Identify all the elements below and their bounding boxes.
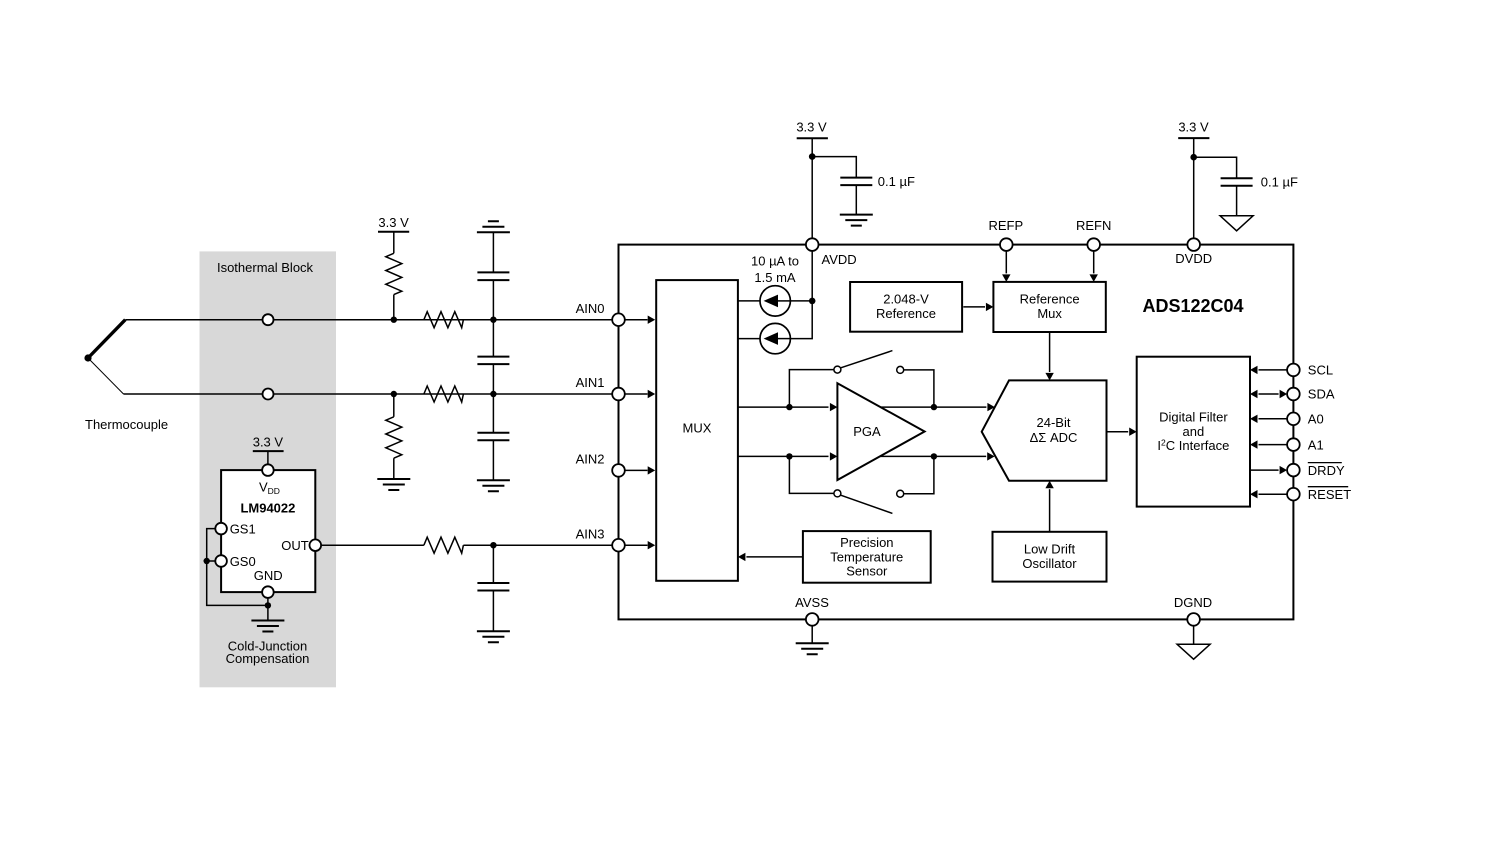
wire GS0 stub xyxy=(207,560,216,562)
wire A0 to digital filter xyxy=(1259,418,1288,420)
wire reference mux to ADC xyxy=(1049,332,1051,372)
differential capacitor between AIN0 and AIN1 xyxy=(477,320,509,394)
pin AIN3 xyxy=(612,539,625,552)
pin REFP xyxy=(1000,238,1013,251)
svg-text:A0: A0 xyxy=(1308,412,1324,427)
svg-text:10 µA to: 10 µA to xyxy=(751,254,799,269)
series resistor on AIN0 xyxy=(424,312,464,328)
wire resistor to AIN3 node xyxy=(463,544,612,546)
wire resistor to AIN0 xyxy=(393,295,395,320)
pin SCL xyxy=(1287,364,1300,377)
wire PGA to ADC negative xyxy=(880,455,986,457)
wire reference to reference mux xyxy=(963,306,985,308)
svg-text:AIN0: AIN0 xyxy=(576,301,605,316)
wire AIN1 to MUX xyxy=(625,393,648,395)
svg-text:Sensor: Sensor xyxy=(846,563,888,578)
svg-text:0.1 µF: 0.1 µF xyxy=(878,174,915,189)
pin GS0 xyxy=(215,555,227,567)
LM94022 U1 xyxy=(221,470,315,592)
wire REFN to reference mux xyxy=(1093,251,1095,274)
svg-text:Mux: Mux xyxy=(1037,306,1062,321)
junction dot PGA input positive xyxy=(786,404,792,410)
pin GS1 xyxy=(215,523,227,535)
pin A1 xyxy=(1287,438,1300,451)
junction dot PGA output negative xyxy=(931,453,937,459)
ground C1 xyxy=(840,215,873,226)
wire MUX to PGA positive xyxy=(738,406,829,408)
svg-text:ΔΣ ADC: ΔΣ ADC xyxy=(1030,430,1078,445)
3.3 V supply DVDD xyxy=(1178,120,1209,239)
wire to AVDD decoupling cap xyxy=(812,157,856,178)
svg-text:OUT: OUT xyxy=(281,538,309,553)
digital filter block xyxy=(1137,357,1250,507)
junction dot PGA output positive xyxy=(931,404,937,410)
pin AVDD xyxy=(806,238,819,251)
wire AVDD to current sources xyxy=(790,251,812,339)
svg-text:SDA: SDA xyxy=(1308,387,1335,402)
pin AVSS xyxy=(806,613,819,626)
wire AIN0 to MUX xyxy=(625,319,648,321)
current source I1 xyxy=(760,286,790,316)
svg-text:Reference: Reference xyxy=(876,306,936,321)
wire AIN1 from thermocouple to chip xyxy=(124,393,613,395)
inverted ground above AIN0 cap xyxy=(477,221,510,232)
svg-text:GS1: GS1 xyxy=(230,521,256,536)
pin SDA xyxy=(1287,388,1300,401)
precision temperature sensor block xyxy=(803,531,931,583)
ground below LM94022 xyxy=(251,621,284,632)
junction dot AIN1 pull-down xyxy=(391,391,397,397)
wire AIN3 to MUX xyxy=(625,544,648,546)
pin REFN xyxy=(1087,238,1100,251)
junction dot PGA input negative xyxy=(786,453,792,459)
wire A1 to digital filter xyxy=(1259,444,1288,446)
wire C2 to ground xyxy=(1236,186,1238,216)
current source I2 xyxy=(760,323,790,353)
wire C1 to ground xyxy=(855,185,857,215)
svg-text:24-Bit: 24-Bit xyxy=(1037,415,1071,430)
wire GS1 strap xyxy=(207,529,268,606)
reference mux block xyxy=(993,282,1105,332)
svg-text:AIN1: AIN1 xyxy=(576,375,605,390)
svg-text:Isothermal Block: Isothermal Block xyxy=(217,260,314,275)
svg-text:PGA: PGA xyxy=(853,424,881,439)
ground AVSS xyxy=(796,643,829,654)
svg-text:GND: GND xyxy=(254,568,283,583)
svg-text:Compensation: Compensation xyxy=(226,651,310,666)
ADS122C04 chip outline xyxy=(619,245,1294,620)
svg-text:LM94022: LM94022 xyxy=(240,501,295,516)
svg-text:AVSS: AVSS xyxy=(795,595,829,610)
svg-text:Low Drift: Low Drift xyxy=(1024,541,1076,556)
junction dot GS0 strap xyxy=(204,558,210,564)
pin A0 xyxy=(1287,413,1300,426)
svg-text:AIN3: AIN3 xyxy=(576,526,605,541)
PGA bypass switch top xyxy=(789,351,934,408)
wire OUT to AIN3 xyxy=(321,544,424,546)
3.3 V supply for AIN0 pull-up xyxy=(378,215,409,253)
junction dot AVDD decoupling xyxy=(809,153,816,160)
svg-text:DGND: DGND xyxy=(1174,595,1212,610)
pin RESET xyxy=(1287,488,1300,501)
svg-text:ADS122C04: ADS122C04 xyxy=(1142,296,1243,316)
capacitor AIN3 to ground xyxy=(477,545,509,631)
wire GND down xyxy=(267,598,269,621)
24-bit delta-sigma ADC block xyxy=(982,380,1107,480)
pin DVDD xyxy=(1187,238,1200,251)
junction dot AIN3 filter node xyxy=(490,542,496,548)
svg-text:Oscillator: Oscillator xyxy=(1022,556,1077,571)
pin DGND xyxy=(1187,613,1200,626)
digital ground C2 xyxy=(1220,216,1253,231)
3.3 V supply AVDD xyxy=(796,120,828,239)
series resistor on AIN3 xyxy=(424,537,464,553)
svg-text:Thermocouple: Thermocouple xyxy=(85,417,168,432)
pin GND xyxy=(262,586,274,598)
svg-text:DVDD: DVDD xyxy=(1175,251,1212,266)
decoupling capacitor C2 0.1 uF xyxy=(1221,178,1253,186)
PGA amplifier xyxy=(837,383,924,480)
wire REFP to reference mux xyxy=(1005,251,1007,274)
pin AIN1 xyxy=(612,388,625,401)
svg-text:DRDY: DRDY xyxy=(1308,463,1345,478)
junction dot AIN1 filter node xyxy=(490,391,496,397)
svg-text:GS0: GS0 xyxy=(230,554,256,569)
svg-text:REFP: REFP xyxy=(988,218,1023,233)
svg-text:2.048-V: 2.048-V xyxy=(883,291,929,306)
svg-text:3.3 V: 3.3 V xyxy=(378,215,409,230)
svg-text:Temperature: Temperature xyxy=(830,549,903,564)
wire SCL to digital filter xyxy=(1259,369,1288,371)
wire digital filter to DRDY xyxy=(1250,469,1279,471)
pin VDD xyxy=(262,464,274,476)
wire SDA bidirectional xyxy=(1259,393,1279,395)
svg-text:1.5 mA: 1.5 mA xyxy=(754,270,796,285)
svg-text:3.3 V: 3.3 V xyxy=(1178,120,1209,135)
digital ground DGND xyxy=(1177,644,1210,659)
pin AIN0 xyxy=(612,313,625,326)
pull-down resistor below AIN1 xyxy=(386,394,402,479)
wire I2 to MUX xyxy=(738,338,760,340)
pin DRDY xyxy=(1287,464,1300,477)
isothermal junction terminal on AIN0 wire xyxy=(263,314,274,325)
capacitor AIN1 to ground xyxy=(477,394,509,480)
wire to DVDD decoupling cap xyxy=(1194,157,1237,178)
low drift oscillator block xyxy=(993,532,1107,582)
svg-text:AIN2: AIN2 xyxy=(576,452,605,467)
wire ADC to digital filter xyxy=(1107,431,1129,433)
isothermal block shaded region xyxy=(200,251,337,687)
svg-text:Precision: Precision xyxy=(840,535,893,550)
svg-text:Digital Filter: Digital Filter xyxy=(1159,410,1228,425)
wire PGA to ADC positive xyxy=(881,406,987,408)
wire AVSS to ground xyxy=(811,626,813,644)
junction dot AIN0 filter node xyxy=(490,317,496,323)
2.048-V reference block xyxy=(850,282,962,332)
svg-text:A1: A1 xyxy=(1308,437,1324,452)
series resistor on AIN1 xyxy=(424,386,464,402)
ground below AIN1 cap xyxy=(477,480,510,491)
svg-text:and: and xyxy=(1183,424,1205,439)
junction dot DVDD decoupling xyxy=(1190,154,1197,161)
wire I1 to MUX xyxy=(738,300,760,302)
svg-text:RESET: RESET xyxy=(1308,487,1351,502)
isothermal junction terminal on AIN1 wire xyxy=(263,389,274,400)
svg-text:0.1 µF: 0.1 µF xyxy=(1261,175,1298,190)
capacitor AIN0 to top ground xyxy=(477,232,509,319)
MUX block xyxy=(656,280,738,581)
decoupling capacitor C1 0.1 uF xyxy=(840,178,872,186)
pin OUT xyxy=(310,539,322,551)
svg-text:I2C Interface: I2C Interface xyxy=(1157,438,1229,454)
svg-text:REFN: REFN xyxy=(1076,218,1111,233)
svg-text:MUX: MUX xyxy=(683,421,712,436)
junction dot AIN0 pull-up xyxy=(391,317,397,323)
wire RESET to digital filter xyxy=(1259,493,1288,495)
wire AIN2 to MUX xyxy=(625,469,648,471)
svg-text:SCL: SCL xyxy=(1308,363,1333,378)
wire oscillator to ADC xyxy=(1049,489,1051,532)
3.3 V supply for LM94022 xyxy=(253,434,284,464)
pull-up resistor on AIN0 xyxy=(386,253,402,294)
PGA bypass switch bottom xyxy=(789,456,934,513)
svg-text:3.3 V: 3.3 V xyxy=(253,434,284,449)
thermocouple xyxy=(84,320,125,394)
ground below pull-down resistor xyxy=(377,479,410,490)
wire MUX to PGA negative xyxy=(738,455,829,457)
svg-text:3.3 V: 3.3 V xyxy=(796,120,827,135)
ground below AIN3 cap xyxy=(477,631,510,642)
pin AIN2 xyxy=(612,464,625,477)
svg-text:Reference: Reference xyxy=(1020,291,1080,306)
wire temperature sensor to MUX xyxy=(746,556,803,558)
svg-text:AVDD: AVDD xyxy=(822,252,857,267)
junction dot AVDD branch xyxy=(809,298,816,305)
wire DGND to ground xyxy=(1193,626,1195,645)
junction dot GND strap xyxy=(265,602,271,608)
wire AIN0 from thermocouple to chip xyxy=(125,319,612,321)
